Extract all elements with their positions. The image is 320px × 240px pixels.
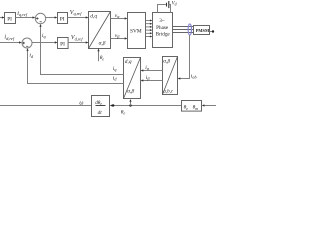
transform block U1 dq to alpha-beta (voltages) [89,12,111,49]
theta bus wire [113,105,182,107]
wire PI1 to sum1 [16,17,34,19]
svg-text:α,β: α,β [163,58,170,64]
current sensor ellipse [188,24,191,35]
svg-text:d,q: d,q [90,13,97,19]
wire v_beta to SVM [111,38,126,40]
gate signal wires SVM to bridge (6) [146,21,151,37]
wire input to PI1 [0,17,3,19]
svg-text:Bridge: Bridge [156,32,171,38]
wire sum1 to PI2 [46,17,55,19]
wire i_alpha [143,70,163,72]
PMSM block [194,26,210,35]
svg-text:SVM: SVM [130,29,142,35]
svg-text:iab: iab [191,73,197,79]
SVM block [128,13,146,49]
d theta/dt block [92,96,110,117]
wire i_beta [143,80,163,82]
feedback wire i_d [28,50,124,83]
svg-text:θe: θe [184,105,189,111]
svg-text:Vd,ref: Vd,ref [71,35,83,42]
theta_e arrow into U2 [130,101,132,105]
svg-text:Vd: Vd [172,1,177,6]
svg-text:3~: 3~ [159,18,165,24]
3-phase bridge block [153,13,173,48]
svg-text:Vq,ref: Vq,ref [70,10,82,17]
transform block U2 alpha-beta to dq (currents) [124,58,141,99]
junction dot shaft [212,30,214,32]
svg-text:α,β: α,β [127,89,134,95]
svg-text:id: id [29,53,34,59]
junction dot B [129,104,131,106]
arrow into dtheta block [110,104,113,106]
svg-text:PI: PI [7,16,12,22]
svg-text:iq: iq [113,66,117,72]
svg-text:iq,ref: iq,ref [17,11,27,18]
PI controller PI3 [58,38,69,49]
shaft wire from PMSM [210,31,215,33]
PI controller PI2 [58,13,68,24]
DC link wire left [158,5,166,13]
svg-text:θm: θm [193,105,199,111]
svg-text:θe: θe [121,109,126,115]
svg-text:Phase: Phase [156,25,169,31]
theta conversion block [182,101,202,112]
svg-text:ω: ω [79,100,83,106]
wire v_alpha to SVM [111,18,126,20]
feedback wire i_q [41,26,124,74]
svg-text:d,q: d,q [125,59,132,65]
svg-text:PI: PI [60,16,65,22]
junction dot A [112,104,114,106]
sensor wire down to abc block [180,35,190,79]
theta_e arrow into U1 [98,51,100,62]
svg-text:PI: PI [60,41,65,47]
DC link wire right [169,5,171,13]
wire sum2 to PI3 [32,42,55,44]
wire from right edge into theta block [204,105,216,107]
svg-text:iq: iq [42,33,46,39]
wire PI3 to dq/ab block [68,42,86,44]
svg-text:PMSM: PMSM [196,28,210,33]
svg-text:id: id [113,75,118,81]
svg-text:dt: dt [98,110,103,116]
wire input to sum2 [0,42,19,44]
svg-text:a,b,c: a,b,c [163,89,174,94]
summing junction sum2 [22,38,32,48]
battery V_d [166,3,168,7]
summing junction sum1 [35,13,45,23]
omega wire [0,105,91,107]
transform block U3 abc to alpha-beta [163,57,178,95]
svg-text:θe: θe [100,55,105,61]
PI controller PI1 [5,13,16,24]
3-phase lines to PMSM [173,27,192,33]
wire PI2 to dq/ab block [68,17,86,19]
svg-text:α,β: α,β [99,40,106,46]
svg-text:id,ref: id,ref [4,35,14,42]
svg-text:vα: vα [115,13,120,19]
